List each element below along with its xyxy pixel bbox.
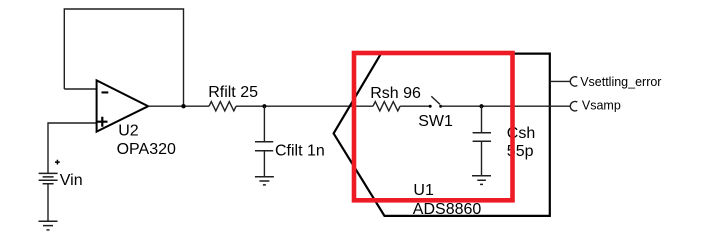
wire battery to ground [47, 184, 49, 221]
node feedback junction [181, 104, 185, 108]
red annotation box around sampling stage [354, 53, 513, 200]
ground below Cfilt [255, 177, 274, 185]
wire Cfilt bottom [263, 151, 265, 177]
svg-text:Vin: Vin [60, 172, 83, 189]
wire Cfilt top [263, 106, 265, 142]
wire Rsh to switch [400, 105, 429, 107]
wire inverting input [64, 88, 96, 90]
battery plus mark [55, 160, 60, 165]
svg-text:Rsh 96: Rsh 96 [370, 85, 421, 102]
svg-text:U1: U1 [413, 182, 434, 199]
op-amp minus pin mark [102, 91, 109, 93]
svg-text:OPA320: OPA320 [117, 141, 176, 158]
op-amp plus pin mark [97, 117, 107, 127]
wire feedback loop U2 output to inverting input [64, 9, 183, 106]
svg-text:Cfilt 1n: Cfilt 1n [275, 143, 325, 160]
svg-text:Rfilt 25: Rfilt 25 [208, 84, 258, 101]
svg-text:U2: U2 [118, 123, 139, 140]
wire non-inverting input to Vin [48, 123, 97, 173]
op-amp U1 ADS8860 symbol pentagon [334, 54, 550, 216]
terminal arc Vsamp [570, 102, 577, 111]
switch SW1 [429, 105, 432, 108]
wire op-amp output [148, 105, 209, 107]
svg-text:SW1: SW1 [418, 113, 453, 130]
node Csh junction [479, 104, 483, 108]
ground below Vin [39, 221, 58, 230]
svg-text:Vsamp: Vsamp [582, 99, 621, 113]
svg-text:ADS8860: ADS8860 [413, 201, 482, 218]
voltage source Vin battery [39, 173, 58, 183]
wire Csh bottom [481, 141, 483, 176]
ground below Csh [472, 176, 491, 185]
capacitor Csh [473, 133, 491, 142]
capacitor Cfilt [255, 142, 273, 151]
node Cfilt junction [262, 104, 266, 108]
svg-text:Vsettling_error: Vsettling_error [580, 75, 661, 89]
switch SW1 lever [431, 96, 440, 104]
wire Rfilt to Rsh [236, 105, 373, 107]
wire Csh top [481, 106, 483, 133]
resistor Rsh [373, 102, 400, 111]
wire Vsettling_error pin [550, 80, 571, 82]
op-amp U2 triangle [97, 80, 149, 131]
wire switch to Vsamp output [441, 105, 571, 107]
resistor Rfilt [209, 102, 236, 111]
terminal arc Vsettling_error [570, 77, 577, 86]
